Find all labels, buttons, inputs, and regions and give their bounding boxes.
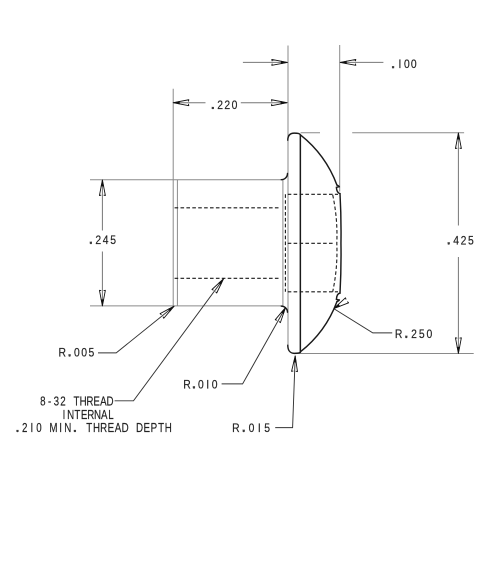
svg-text:R.0I0: R.0I0 [183, 379, 217, 392]
svg-text:.2I0 MIN. THREAD DEPTH: .2I0 MIN. THREAD DEPTH [16, 421, 172, 436]
svg-text:R.0I5: R.0I5 [232, 422, 270, 435]
svg-text:R.250: R.250 [395, 328, 432, 341]
svg-text:R.005: R.005 [59, 347, 95, 360]
